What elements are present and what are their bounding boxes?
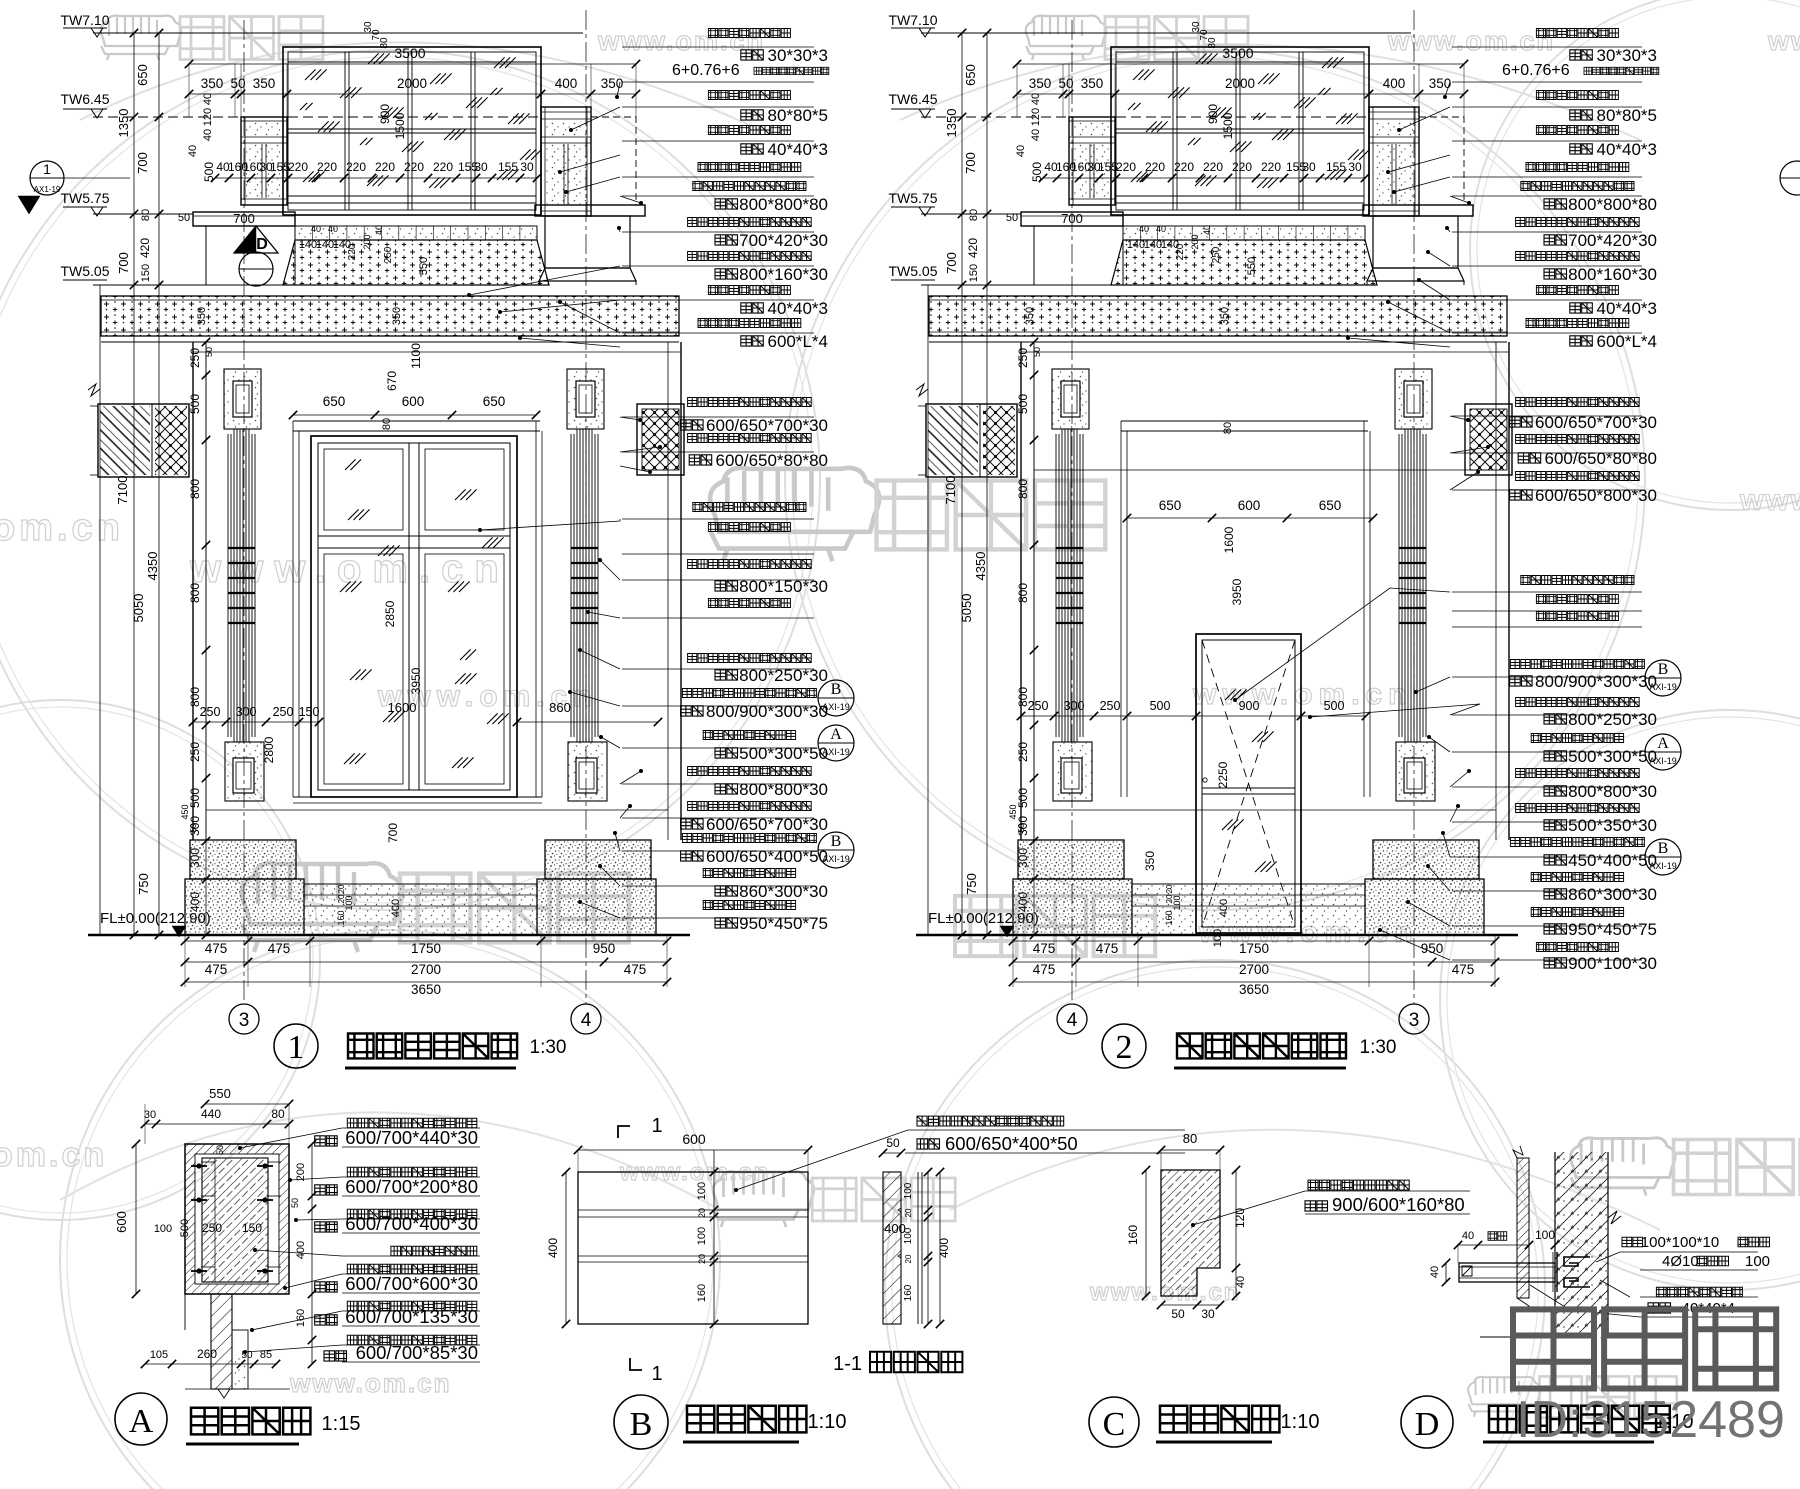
svg-text:300: 300 [236, 705, 257, 719]
svg-text:150: 150 [968, 264, 980, 282]
svg-text:1:30: 1:30 [530, 1037, 567, 1058]
svg-text:3650: 3650 [1239, 982, 1269, 997]
svg-text:6+0.76+6: 6+0.76+6 [672, 62, 740, 79]
svg-text:400: 400 [546, 1238, 560, 1258]
svg-text:700: 700 [116, 252, 131, 274]
svg-text:30: 30 [520, 160, 534, 174]
svg-text:20: 20 [697, 1208, 707, 1218]
svg-text:600/650*700*30: 600/650*700*30 [1535, 413, 1657, 432]
svg-text:500: 500 [179, 1219, 191, 1237]
svg-text:1-1: 1-1 [833, 1353, 862, 1375]
svg-text:670: 670 [385, 371, 399, 391]
svg-text:30: 30 [1348, 160, 1362, 174]
svg-text:900*100*30: 900*100*30 [1568, 954, 1657, 973]
svg-text:40: 40 [328, 224, 338, 234]
svg-text:400: 400 [1383, 76, 1406, 91]
svg-text:300: 300 [1064, 699, 1085, 713]
svg-text:500: 500 [188, 394, 202, 414]
svg-text:220: 220 [1145, 160, 1165, 174]
svg-text:30: 30 [1302, 160, 1316, 174]
svg-text:50: 50 [215, 1145, 225, 1155]
svg-text:475: 475 [1033, 941, 1056, 956]
svg-text:400: 400 [555, 76, 578, 91]
svg-text:600/700*400*30: 600/700*400*30 [345, 1213, 478, 1234]
svg-text:1750: 1750 [411, 941, 441, 956]
svg-text:600/700*200*80: 600/700*200*80 [345, 1176, 478, 1197]
svg-text:80: 80 [140, 209, 152, 221]
svg-text:1: 1 [651, 1363, 662, 1385]
svg-text:950: 950 [593, 941, 616, 956]
svg-text:1600: 1600 [1222, 526, 1236, 553]
svg-text:600: 600 [1238, 498, 1261, 513]
svg-text:350: 350 [391, 307, 403, 325]
svg-text:6+0.76+6: 6+0.76+6 [1502, 62, 1570, 79]
svg-text:5050: 5050 [959, 594, 974, 623]
svg-text:860: 860 [549, 700, 571, 715]
svg-text:475: 475 [624, 962, 647, 977]
front elevation drawing 1 [93, 32, 583, 34]
svg-text:80: 80 [271, 1107, 285, 1121]
svg-text:2700: 2700 [1239, 962, 1269, 977]
svg-text:700: 700 [386, 823, 400, 843]
svg-text:2850: 2850 [383, 600, 397, 627]
svg-text:TW7.10: TW7.10 [60, 12, 109, 28]
svg-text:700: 700 [963, 152, 978, 174]
svg-text:B: B [1658, 840, 1669, 857]
svg-text:440: 440 [201, 1107, 221, 1121]
svg-text:100: 100 [344, 895, 354, 910]
svg-text:800*150*30: 800*150*30 [739, 577, 828, 596]
svg-text:50: 50 [1006, 212, 1018, 224]
svg-text:800*800*30: 800*800*30 [1568, 782, 1657, 801]
svg-text:80*80*5: 80*80*5 [1596, 106, 1657, 125]
svg-text:250: 250 [1100, 699, 1121, 713]
svg-text:900: 900 [1206, 104, 1220, 124]
svg-text:250: 250 [188, 742, 202, 762]
svg-text:1100: 1100 [409, 343, 423, 369]
svg-text:160: 160 [903, 1284, 914, 1301]
svg-text:ID:3152489: ID:3152489 [1516, 1391, 1785, 1449]
detail D ironwork install detail 1:10 [1517, 1158, 1529, 1298]
svg-text:om.cn: om.cn [0, 1136, 107, 1174]
svg-text:350: 350 [201, 76, 224, 91]
svg-text:350: 350 [1219, 307, 1231, 325]
svg-text:50: 50 [886, 1136, 900, 1150]
svg-text:900/600*160*80: 900/600*160*80 [1332, 1194, 1465, 1215]
svg-text:120: 120 [1030, 108, 1042, 126]
svg-text:450: 450 [180, 804, 190, 819]
svg-text:220: 220 [433, 160, 453, 174]
svg-text:420: 420 [138, 238, 152, 258]
back elevation drawing 2 [921, 32, 1411, 34]
svg-text:AXI-19: AXI-19 [1649, 682, 1677, 692]
svg-text:100: 100 [1745, 1253, 1770, 1270]
svg-text:750: 750 [136, 873, 151, 895]
svg-text:475: 475 [1096, 941, 1119, 956]
svg-text:150: 150 [299, 705, 320, 719]
svg-text:220: 220 [317, 160, 337, 174]
svg-text:TW5.75: TW5.75 [60, 190, 109, 206]
svg-text:www.om.cn: www.om.cn [1387, 26, 1555, 56]
svg-text:1750: 1750 [1239, 941, 1269, 956]
svg-text:80: 80 [1222, 422, 1234, 434]
svg-text:50: 50 [204, 347, 214, 357]
svg-text:105: 105 [150, 1349, 168, 1361]
svg-text:500: 500 [1324, 699, 1345, 713]
svg-text:50: 50 [1171, 1307, 1185, 1321]
svg-text:350: 350 [253, 76, 276, 91]
svg-text:100: 100 [154, 1223, 172, 1235]
svg-text:500: 500 [188, 788, 202, 808]
svg-text:800*160*30: 800*160*30 [1568, 265, 1657, 284]
svg-text:3950: 3950 [409, 667, 423, 694]
svg-text:350: 350 [196, 307, 208, 325]
svg-text:AXI-19: AXI-19 [1649, 756, 1677, 766]
svg-text:200: 200 [295, 1163, 307, 1181]
svg-text:4: 4 [581, 1010, 592, 1031]
svg-text:475: 475 [268, 941, 291, 956]
svg-text:475: 475 [205, 962, 228, 977]
svg-text:7100: 7100 [943, 476, 958, 505]
svg-text:40: 40 [1030, 129, 1042, 141]
svg-text:400: 400 [390, 899, 402, 917]
svg-text:220: 220 [1175, 243, 1186, 260]
svg-text:A: A [830, 726, 842, 743]
svg-text:1: 1 [288, 1029, 305, 1066]
svg-text:50: 50 [290, 1198, 300, 1208]
svg-text:A: A [1657, 735, 1669, 752]
svg-text:30: 30 [1201, 1307, 1215, 1321]
svg-text:TW7.10: TW7.10 [888, 12, 937, 28]
svg-text:800/900*300*30: 800/900*300*30 [706, 702, 828, 721]
svg-text:800*800*80: 800*800*80 [739, 195, 828, 214]
svg-text:600/650*400*50: 600/650*400*50 [945, 1133, 1078, 1154]
svg-text:om.cn: om.cn [0, 507, 124, 549]
svg-text:5050: 5050 [131, 594, 146, 623]
svg-text:900: 900 [1239, 699, 1260, 713]
svg-text:140: 140 [1144, 239, 1162, 251]
svg-text:600/650*800*30: 600/650*800*30 [1535, 486, 1657, 505]
svg-text:20: 20 [904, 1208, 913, 1217]
svg-text:220: 220 [1232, 160, 1252, 174]
svg-text:30: 30 [144, 1109, 156, 1121]
svg-text:100: 100 [696, 1227, 708, 1245]
svg-text:550: 550 [1246, 257, 1258, 275]
svg-text:260: 260 [197, 1347, 217, 1361]
svg-text:80: 80 [968, 209, 980, 221]
svg-text:A: A [129, 1403, 154, 1440]
svg-text:950*450*75: 950*450*75 [739, 914, 828, 933]
svg-text:450: 450 [1008, 804, 1018, 819]
svg-text:220: 220 [1116, 160, 1136, 174]
svg-text:800: 800 [188, 479, 202, 499]
svg-text:800: 800 [188, 687, 202, 707]
svg-text:B: B [831, 681, 842, 698]
svg-text:150: 150 [140, 264, 152, 282]
svg-text:800*800*30: 800*800*30 [739, 780, 828, 799]
svg-text:140: 140 [316, 239, 334, 251]
svg-text:TW5.05: TW5.05 [888, 263, 937, 279]
svg-text:420: 420 [966, 238, 980, 258]
svg-text:140: 140 [1127, 239, 1145, 251]
svg-text:600/700*85*30: 600/700*85*30 [356, 1342, 478, 1363]
svg-text:40: 40 [202, 129, 214, 141]
svg-text:475: 475 [205, 941, 228, 956]
svg-text:800: 800 [1016, 479, 1030, 499]
svg-text:500: 500 [1016, 788, 1030, 808]
svg-text:155: 155 [1326, 160, 1346, 174]
detail B stone detail 1:10 [618, 1126, 630, 1138]
svg-text:www.: www. [1739, 484, 1800, 517]
svg-text:250: 250 [202, 1221, 222, 1235]
svg-text:500: 500 [1016, 394, 1030, 414]
svg-text:AXI-19: AXI-19 [822, 747, 850, 757]
svg-text:40: 40 [311, 224, 321, 234]
svg-text:800: 800 [1016, 583, 1030, 603]
svg-text:80: 80 [381, 418, 393, 430]
svg-text:250: 250 [383, 246, 394, 263]
svg-text:350: 350 [1081, 76, 1104, 91]
svg-text:AX1-19: AX1-19 [34, 185, 61, 194]
svg-text:950*450*75: 950*450*75 [1568, 920, 1657, 939]
svg-text:1:15: 1:15 [322, 1413, 361, 1435]
svg-text:750: 750 [964, 873, 979, 895]
svg-text:160: 160 [336, 910, 346, 925]
svg-text:1:30: 1:30 [1360, 1037, 1397, 1058]
svg-text:450*400*50: 450*400*50 [1568, 851, 1657, 870]
svg-text:40: 40 [1139, 224, 1149, 234]
svg-text:50: 50 [178, 212, 190, 224]
svg-text:220: 220 [375, 160, 395, 174]
svg-text:220: 220 [347, 243, 358, 260]
svg-text:700: 700 [135, 152, 150, 174]
svg-text:500: 500 [1030, 162, 1044, 182]
svg-text:500*350*30: 500*350*30 [1568, 816, 1657, 835]
svg-text:1: 1 [43, 161, 51, 177]
svg-text:100: 100 [696, 1182, 708, 1200]
detail A node detail 1:15 [205, 1103, 289, 1105]
svg-text:650: 650 [1319, 498, 1342, 513]
svg-text:TW5.05: TW5.05 [60, 263, 109, 279]
svg-text:AXI-19: AXI-19 [822, 854, 850, 864]
svg-text:40*40*3: 40*40*3 [1596, 299, 1657, 318]
svg-text:4Ø10: 4Ø10 [1662, 1253, 1699, 1270]
svg-text:600*L*4: 600*L*4 [767, 332, 828, 351]
svg-text:250: 250 [273, 705, 294, 719]
svg-text:500: 500 [202, 162, 216, 182]
svg-text:40: 40 [1235, 1276, 1247, 1288]
svg-text:650: 650 [963, 64, 978, 86]
svg-text:800: 800 [188, 583, 202, 603]
svg-text:30: 30 [474, 160, 488, 174]
svg-text:2250: 2250 [1216, 761, 1230, 788]
svg-text:800*800*80: 800*800*80 [1568, 195, 1657, 214]
svg-text:40: 40 [374, 225, 384, 235]
svg-text:475: 475 [1033, 962, 1056, 977]
svg-text:600/700*440*30: 600/700*440*30 [345, 1127, 478, 1148]
svg-text:400: 400 [1218, 899, 1230, 917]
svg-text:160: 160 [1126, 1225, 1140, 1245]
svg-text:20: 20 [1165, 884, 1174, 893]
svg-text:3950: 3950 [1230, 578, 1244, 605]
svg-text:80*80*5: 80*80*5 [767, 106, 828, 125]
svg-text:250: 250 [1211, 246, 1222, 263]
svg-text:100: 100 [903, 1227, 914, 1244]
svg-text:2700: 2700 [411, 962, 441, 977]
svg-text:600/650*700*30: 600/650*700*30 [706, 416, 828, 435]
svg-text:860*300*30: 860*300*30 [1568, 885, 1657, 904]
svg-text:550: 550 [418, 257, 430, 275]
svg-text:40: 40 [1030, 93, 1042, 105]
svg-text:700*420*30: 700*420*30 [739, 231, 828, 250]
svg-text:B: B [1658, 661, 1669, 678]
svg-text:600*L*4: 600*L*4 [1596, 332, 1657, 351]
svg-text:3: 3 [239, 1010, 250, 1031]
svg-text:4350: 4350 [973, 552, 988, 581]
svg-text:1350: 1350 [116, 109, 131, 138]
svg-text:B: B [630, 1406, 653, 1443]
svg-text:120: 120 [202, 108, 214, 126]
svg-text:4: 4 [1067, 1010, 1078, 1031]
svg-text:700*420*30: 700*420*30 [1568, 231, 1657, 250]
svg-text:350: 350 [1024, 307, 1036, 325]
svg-text:250: 250 [1028, 699, 1049, 713]
svg-text:600/650*700*30: 600/650*700*30 [706, 815, 828, 834]
svg-text:AXI-19: AXI-19 [1649, 861, 1677, 871]
svg-text:20: 20 [697, 1254, 707, 1264]
svg-text:400: 400 [295, 1241, 307, 1259]
svg-text:B: B [831, 833, 842, 850]
svg-text:1: 1 [651, 1115, 662, 1137]
svg-text:40: 40 [1202, 225, 1212, 235]
svg-text:350: 350 [1143, 851, 1157, 871]
svg-text:3: 3 [1409, 1010, 1420, 1031]
svg-text:2: 2 [1116, 1029, 1133, 1066]
svg-text:40*40*3: 40*40*3 [767, 140, 828, 159]
svg-text:100: 100 [1172, 895, 1182, 910]
svg-text:AXI-19: AXI-19 [822, 702, 850, 712]
svg-text:1350: 1350 [944, 109, 959, 138]
detail C stone detail 1:10 [1161, 1149, 1220, 1151]
svg-text:220: 220 [404, 160, 424, 174]
svg-text:500*300*50: 500*300*50 [1568, 747, 1657, 766]
svg-text:250: 250 [188, 348, 202, 368]
svg-text:20: 20 [337, 884, 346, 893]
svg-text:200: 200 [362, 234, 372, 249]
svg-text:30*30*3: 30*30*3 [1596, 46, 1657, 65]
svg-text:800*250*30: 800*250*30 [739, 666, 828, 685]
svg-text:650: 650 [135, 64, 150, 86]
svg-text:860*300*30: 860*300*30 [739, 882, 828, 901]
svg-text:TW6.45: TW6.45 [888, 91, 937, 107]
svg-text:50: 50 [1032, 347, 1042, 357]
svg-text:40*40*3: 40*40*3 [767, 299, 828, 318]
svg-text:80: 80 [1183, 1131, 1197, 1146]
svg-text:600/650*80*80: 600/650*80*80 [715, 451, 828, 470]
svg-text:250: 250 [1016, 348, 1030, 368]
svg-text:50: 50 [1058, 76, 1073, 91]
svg-text:40*40*3: 40*40*3 [1596, 140, 1657, 159]
svg-text:40: 40 [1462, 1230, 1474, 1242]
svg-text:220: 220 [1203, 160, 1223, 174]
svg-text:40: 40 [1156, 224, 1166, 234]
svg-text:40: 40 [202, 93, 214, 105]
svg-text:600/650*400*50: 600/650*400*50 [706, 847, 828, 866]
svg-text:100*100*10: 100*100*10 [1641, 1234, 1719, 1251]
svg-text:100: 100 [1212, 929, 1224, 947]
svg-text:4350: 4350 [145, 552, 160, 581]
svg-text:220: 220 [288, 160, 308, 174]
svg-text:600/650*80*80: 600/650*80*80 [1544, 449, 1657, 468]
svg-text:140: 140 [299, 239, 317, 251]
svg-text:1600: 1600 [388, 700, 417, 715]
svg-text:160: 160 [295, 1309, 307, 1327]
svg-text:www.om.cn: www.om.cn [1767, 26, 1800, 56]
svg-text:D: D [256, 236, 268, 253]
svg-text:800/900*300*30: 800/900*300*30 [1535, 672, 1657, 691]
svg-text:50: 50 [230, 76, 245, 91]
svg-text:100: 100 [1535, 1228, 1555, 1242]
svg-text:2800: 2800 [262, 736, 276, 763]
svg-text:220: 220 [1261, 160, 1281, 174]
svg-text:www.om.cn: www.om.cn [289, 1368, 452, 1398]
svg-text:600: 600 [114, 1211, 129, 1233]
svg-text:1:10: 1:10 [1281, 1411, 1320, 1433]
svg-text:475: 475 [1452, 962, 1475, 977]
svg-text:100: 100 [903, 1182, 914, 1199]
svg-text:550: 550 [209, 1086, 231, 1101]
svg-text:650: 650 [323, 394, 346, 409]
svg-text:600/700*135*30: 600/700*135*30 [345, 1306, 478, 1327]
svg-text:150: 150 [242, 1221, 262, 1235]
svg-text:650: 650 [483, 394, 506, 409]
svg-text:7100: 7100 [115, 476, 130, 505]
svg-text:160: 160 [696, 1284, 708, 1302]
svg-text:800*250*30: 800*250*30 [1568, 710, 1657, 729]
svg-text:600: 600 [682, 1131, 706, 1147]
svg-text:900: 900 [378, 104, 392, 124]
svg-text:650: 650 [1159, 498, 1182, 513]
svg-text:250: 250 [200, 705, 221, 719]
svg-text:C: C [1103, 1406, 1126, 1443]
svg-text:20: 20 [904, 1254, 913, 1263]
svg-text:600/700*600*30: 600/700*600*30 [345, 1273, 478, 1294]
svg-text:3650: 3650 [411, 982, 441, 997]
svg-text:500: 500 [1150, 699, 1171, 713]
svg-text:1:10: 1:10 [808, 1411, 847, 1433]
svg-text:155: 155 [498, 160, 518, 174]
svg-text:700: 700 [944, 252, 959, 274]
svg-text:D: D [1415, 1406, 1440, 1443]
svg-text:600: 600 [402, 394, 425, 409]
svg-text:200: 200 [1190, 234, 1200, 249]
svg-text:TW6.45: TW6.45 [60, 91, 109, 107]
watermark layer [0, 50, 820, 910]
svg-text:800*160*30: 800*160*30 [739, 265, 828, 284]
svg-text:40: 40 [1429, 1266, 1441, 1278]
svg-text:40: 40 [187, 145, 199, 157]
svg-text:30*30*3: 30*30*3 [767, 46, 828, 65]
svg-text:400: 400 [937, 1238, 951, 1258]
svg-text:www.om.cn: www.om.cn [1192, 678, 1413, 711]
svg-text:160: 160 [1164, 910, 1174, 925]
svg-text:TW5.75: TW5.75 [888, 190, 937, 206]
svg-text:40: 40 [1015, 145, 1027, 157]
svg-text:500*300*50: 500*300*50 [739, 744, 828, 763]
svg-text:250: 250 [1016, 742, 1030, 762]
site watermark ID:3152489 [1513, 1309, 1776, 1388]
svg-text:350: 350 [1029, 76, 1052, 91]
